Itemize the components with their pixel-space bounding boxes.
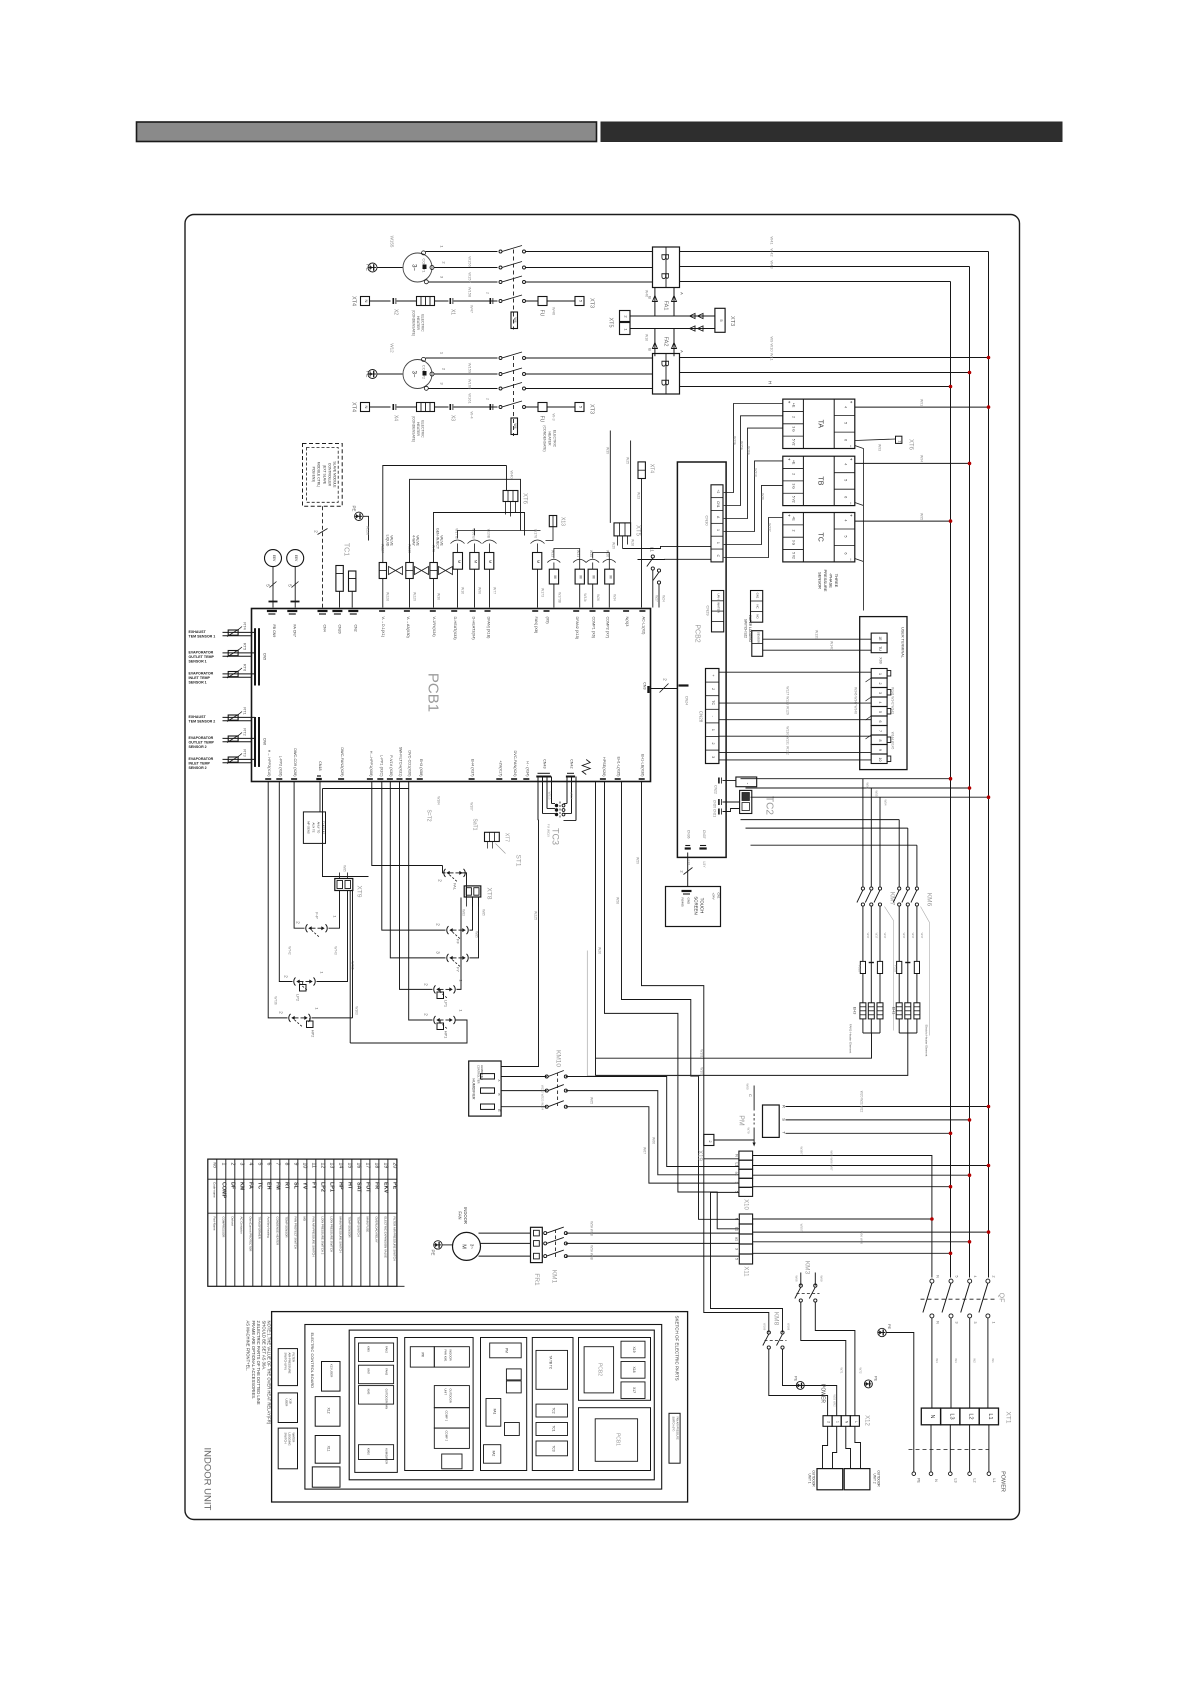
svg-text:W17: W17: [883, 933, 887, 939]
svg-text:UNIT 1: UNIT 1: [808, 1473, 812, 1483]
svg-text:5: 5: [257, 1163, 263, 1166]
svg-text:−: −: [849, 502, 854, 505]
svg-text:6: 6: [266, 1163, 272, 1166]
svg-text:W226: W226: [366, 526, 370, 535]
svg-text:COMPRESSOR: COMPRESSOR: [221, 1217, 225, 1238]
legend box water logging switch: [278, 1428, 297, 1469]
choke B2: [653, 354, 680, 395]
svg-text:Code-name: Code-name: [213, 1182, 217, 1198]
svg-text:TEMP SWITCH: TEMP SWITCH: [356, 1217, 360, 1237]
svg-text:TC: TC: [257, 1182, 263, 1189]
svg-text:6: 6: [844, 439, 848, 441]
svg-text:1: 1: [711, 729, 715, 731]
svg-text:V-→D.1(X1): V-→D.1(X1): [381, 617, 385, 638]
svg-text:3: 3: [955, 1322, 959, 1324]
svg-text:FA1: FA1: [663, 301, 669, 311]
filter switch FAL loop: [372, 782, 443, 866]
svg-text:DWC-FAN2(X29): DWC-FAN2(X29): [340, 747, 344, 777]
svg-text:Electric-Heater Element: Electric-Heater Element: [925, 1025, 929, 1057]
svg-text:XT3: XT3: [589, 298, 595, 308]
svg-text:GN1: GN1: [756, 593, 760, 599]
svg-text:PRESSURE: PRESSURE: [823, 569, 828, 591]
legend right small box: [669, 1413, 680, 1463]
svg-text:TU: TU: [878, 646, 882, 651]
svg-text:W9 W10 W11: W9 W10 W11: [770, 336, 775, 361]
loops return rails: [457, 898, 462, 990]
svg-text:3: 3: [239, 1163, 245, 1166]
svg-text:W-4: W-4: [470, 411, 475, 419]
svg-text:LP2: LP2: [320, 1182, 326, 1192]
svg-text:H: H: [768, 381, 773, 384]
svg-text:AC-L1(X2): AC-L1(X2): [641, 617, 645, 636]
svg-text:CN42: CN42: [570, 759, 574, 768]
svg-text:B: B: [659, 360, 671, 367]
svg-text:1: 1: [878, 673, 882, 675]
svg-text:3 G: 3 G: [792, 484, 796, 490]
svg-text:EVAPORATOR: EVAPORATOR: [189, 651, 214, 655]
valve V3 injection valve: [430, 563, 437, 579]
svg-text:EXHAUST: EXHAUST: [189, 630, 207, 634]
svg-text:MODULE CTRL): MODULE CTRL): [317, 462, 321, 487]
wire valve V3 riser: [434, 513, 525, 563]
legend X12 box: [315, 1397, 340, 1427]
svg-text:CN29: CN29: [706, 605, 711, 616]
wires TA TB TC plus to buses: [855, 406, 989, 408]
svg-text:CN37: CN37: [702, 830, 706, 839]
svg-text:OverCurrent PROTECTOR: OverCurrent PROTECTOR: [248, 1217, 252, 1252]
svg-text:HEATER: HEATER: [416, 422, 420, 436]
svg-text:MAIN FUSE: MAIN FUSE: [365, 1217, 369, 1233]
svg-text:OUTLET TEMP: OUTLET TEMP: [189, 741, 215, 745]
wires X11 to KM3: [727, 1259, 801, 1286]
svg-text:X13 USER: X13 USER: [330, 1364, 334, 1378]
wire valve V1 riser: [383, 466, 507, 563]
svg-text:W160: W160: [468, 379, 473, 390]
svg-text:W28: W28: [631, 539, 635, 546]
svg-text:SaT1: SaT1: [472, 819, 478, 831]
legend X13 box: [322, 1362, 341, 1392]
svg-text:N: N: [364, 406, 369, 409]
connector X13 small: [549, 516, 556, 527]
svg-text:2: 2: [792, 530, 796, 532]
svg-text:M: M: [457, 560, 462, 563]
svg-text:KM6: KM6: [926, 893, 933, 907]
svg-text:N: N: [735, 1218, 739, 1221]
svg-text:NC: NC: [756, 604, 760, 608]
wires relay bank to CN30 left: [623, 546, 712, 548]
PCB2 connector CN24: [679, 684, 689, 686]
svg-text:CN20 CN21: CN20 CN21: [713, 800, 717, 817]
wires CN30 to sensor blocks: [724, 404, 783, 493]
svg-text:10: 10: [878, 758, 882, 762]
high pressure switch HP2 loop: [268, 782, 287, 1018]
svg-text:ELECTRIC: ELECTRIC: [421, 420, 425, 438]
svg-text:2: 2: [230, 1163, 236, 1166]
svg-text:VALVE: VALVE: [390, 535, 394, 546]
svg-text:SENSOR 1: SENSOR 1: [189, 660, 207, 664]
svg-text:UNIT 2: UNIT 2: [873, 1473, 877, 1483]
svg-text:EH: EH: [266, 1182, 272, 1190]
wires choke B1 to right buses: [680, 251, 989, 253]
svg-text:PE: PE: [392, 1182, 398, 1190]
user terminal block TB1: [860, 617, 907, 770]
feeder sources from PCB2 area: [740, 771, 742, 779]
dashed optional slave module controller box: [303, 444, 343, 507]
svg-text:N: N: [935, 1321, 939, 1324]
dashed line power: [909, 1449, 989, 1451]
svg-text:M: M: [579, 576, 583, 579]
terminal strip X12: [823, 1416, 832, 1427]
svg-text:YV: YV: [302, 1182, 308, 1190]
svg-text:Part-Name: Part-Name: [212, 1217, 216, 1231]
svg-text:RT1: RT1: [243, 707, 248, 715]
svg-text:UN-I: UN-I: [717, 593, 721, 599]
svg-text:W39: W39: [606, 447, 610, 454]
svg-text:CN20: CN20: [337, 625, 341, 634]
svg-text:-PHASE: -PHASE: [829, 573, 834, 588]
svg-text:HEATER: HEATER: [548, 432, 552, 446]
outer diagram border: [185, 215, 1020, 1520]
svg-text:X3: X3: [450, 415, 456, 421]
svg-text:W85: W85: [482, 909, 486, 916]
svg-text:HT: HT: [347, 1182, 353, 1190]
svg-text:W184: W184: [437, 796, 441, 805]
svg-text:FAN AIR-PRESSURE: FAN AIR-PRESSURE: [676, 1417, 679, 1441]
svg-text:CN5: CN5: [263, 653, 267, 660]
svg-text:8: 8: [284, 1163, 290, 1166]
svg-text:W79: W79: [747, 1127, 751, 1134]
svg-text:W71: W71: [840, 1367, 844, 1374]
pressure sensor block TC: [783, 513, 855, 562]
svg-text:W140: W140: [830, 641, 834, 650]
svg-text:+2: +2: [716, 490, 720, 494]
svg-text:EVAPORATOR: EVAPORATOR: [189, 672, 214, 676]
svg-text:THREE: THREE: [834, 574, 839, 588]
svg-text:EH1-LB(X36): EH1-LB(X36): [641, 754, 645, 777]
svg-text:−: −: [849, 445, 854, 448]
motor M2 COMP2: [403, 360, 432, 389]
svg-text:4: 4: [844, 463, 848, 465]
svg-text:W17: W17: [911, 933, 915, 939]
wires KM10 outputs: [566, 1077, 739, 1167]
svg-text:3 G: 3 G: [792, 540, 796, 546]
svg-text:3~: 3~: [470, 1244, 475, 1250]
svg-text:PE: PE: [352, 505, 357, 511]
svg-text:L1: L1: [992, 1479, 996, 1483]
svg-text:1: 1: [221, 1163, 227, 1166]
legend electric control board box: [349, 1330, 654, 1480]
svg-text:W69: W69: [820, 1275, 824, 1282]
svg-text:EKV: EKV: [383, 1182, 389, 1193]
plug X2: [392, 298, 394, 304]
svg-text:W56: W56: [866, 782, 870, 789]
relay K1 defrost heater: [453, 553, 462, 570]
svg-text:PCB1: PCB1: [425, 673, 442, 712]
svg-text:FA1: FA1: [493, 1409, 497, 1415]
wire XT5 to XT3 lower with plug arrows: [630, 328, 715, 330]
expansion valve EEV2: [287, 550, 304, 567]
thermostat connector XT7 ST1: [485, 832, 500, 841]
svg-text:B: B: [648, 348, 653, 351]
svg-text:(CONDENSATE): (CONDENSATE): [412, 416, 416, 442]
legend column E top: [579, 1338, 651, 1401]
svg-text:M: M: [608, 576, 612, 579]
ground PE indoor fan: [434, 1241, 442, 1249]
main board PCB1: [252, 609, 651, 782]
wire risers relays: [458, 531, 541, 539]
svg-text:W53 W52: W53 W52: [833, 1394, 837, 1407]
svg-text:FU3B: FU3B: [858, 965, 862, 972]
svg-text:W3Jb: W3Jb: [583, 593, 587, 601]
legend box filter switch: [278, 1349, 297, 1386]
wire riser EH1-L to X11 route: [605, 782, 740, 1229]
connector CN28: [706, 669, 719, 764]
connector XT8: [464, 886, 481, 897]
svg-text:W20 W21 W22: W20 W21 W22: [860, 1091, 864, 1113]
svg-text:FY: FY: [456, 967, 461, 972]
svg-text:USER: USER: [285, 1399, 289, 1407]
svg-text:a1: a1: [735, 1237, 739, 1241]
svg-text:W34: W34: [613, 594, 617, 601]
svg-text:W36A: W36A: [747, 446, 751, 456]
svg-text:W80: W80: [746, 1083, 750, 1090]
svg-text:5: 5: [955, 1276, 959, 1278]
svg-text:PM: PM: [738, 1115, 745, 1126]
svg-text:CN22: CN22: [714, 785, 718, 794]
svg-text:FUT: FUT: [365, 1182, 371, 1193]
wires contactor to choke B2: [526, 357, 653, 359]
valve V2 4-way valve: [406, 563, 413, 579]
svg-text:+: +: [787, 514, 792, 517]
svg-text:W17: W17: [866, 933, 870, 939]
svg-text:XT6: XT6: [522, 493, 528, 505]
svg-text:X17: X17: [632, 1387, 636, 1393]
svg-text:KM10: KM10: [367, 1448, 371, 1456]
svg-text:W65: W65: [590, 1097, 594, 1104]
terminal XT5 top: [620, 311, 631, 322]
switch contact row 2: [499, 406, 502, 409]
wires KM1 to X11: [566, 1232, 740, 1234]
svg-text:W4: W4: [513, 423, 517, 428]
wires humidifier to KM10: [501, 1076, 547, 1078]
svg-text:AC Contactor: AC Contactor: [239, 1217, 243, 1234]
svg-text:18: 18: [374, 1163, 380, 1169]
svg-text:X18: X18: [632, 1366, 636, 1372]
svg-text:AUX TE: AUX TE: [312, 822, 316, 832]
humidifier box: [469, 1061, 501, 1116]
svg-text:AS MACHINE FRONT+EL.: AS MACHINE FRONT+EL.: [246, 1321, 251, 1371]
loop XT9 to XT8 bottom: [350, 891, 483, 1044]
svg-text:MAIN PRESSURE SWITCH: MAIN PRESSURE SWITCH: [338, 1217, 342, 1253]
svg-text:SENSOR 2: SENSOR 2: [189, 745, 207, 749]
fan switch FY loop: [390, 782, 445, 958]
svg-text:3: 3: [711, 756, 715, 758]
svg-text:FF: FF: [456, 939, 461, 944]
svg-text:OUTDOOR FAN: OUTDOOR FAN: [385, 1389, 389, 1410]
svg-text:W66: W66: [652, 1137, 656, 1144]
relay K5 bank: [549, 569, 558, 584]
svg-text:12: 12: [320, 1163, 326, 1169]
svg-text:17: 17: [365, 1163, 371, 1169]
water level sensor: [752, 631, 763, 657]
svg-text:W313: W313: [548, 792, 552, 800]
overload relay FR1: [531, 1227, 543, 1262]
svg-text:16: 16: [356, 1163, 362, 1169]
svg-text:M: M: [488, 560, 493, 563]
svg-text:+: +: [849, 401, 854, 404]
svg-text:RT4: RT4: [243, 622, 248, 630]
svg-text:W4: W4: [513, 317, 517, 322]
svg-text:W59: W59: [636, 857, 640, 864]
svg-text:W163: W163: [355, 1006, 359, 1015]
svg-text:CONTROL TER: CONTROL TER: [477, 1065, 481, 1084]
wire W25 riser: [630, 441, 632, 523]
svg-text:H - (X34): H - (X34): [525, 761, 529, 777]
heater returns: [561, 1033, 872, 1058]
svg-text:GND: GND: [687, 898, 691, 906]
svg-text:DVC-FAN(X24): DVC-FAN(X24): [513, 751, 517, 778]
transformer TC2: [740, 790, 752, 813]
svg-text:NO: NO: [213, 1163, 217, 1169]
legend column E bottom: [579, 1408, 651, 1471]
humidifier terminals: [481, 1074, 495, 1079]
svg-text:V-→A3(X30): V-→A3(X30): [406, 617, 410, 639]
legend column C: [481, 1338, 527, 1471]
svg-text:L5Y: L5Y: [702, 861, 706, 868]
svg-text:L3: L3: [953, 1479, 957, 1483]
wire W39 riser: [609, 431, 611, 523]
wires KM7 KM6 to fuses: [862, 906, 864, 961]
ground PE (motor 2): [368, 370, 377, 379]
svg-text:RT6: RT6: [243, 664, 248, 672]
svg-text:RT3: RT3: [243, 749, 248, 757]
relay K3 fan: [485, 553, 494, 570]
svg-text:14: 14: [338, 1163, 344, 1169]
svg-text:XT4: XT4: [351, 296, 357, 306]
svg-text:9: 9: [293, 1163, 299, 1166]
svg-text:ELECTRIC CONTROL BOARD: ELECTRIC CONTROL BOARD: [310, 1333, 315, 1389]
svg-text:2: 2: [486, 292, 490, 294]
svg-text:KM7: KM7: [367, 1368, 371, 1374]
terminal XT3 arrester: [715, 308, 725, 332]
svg-text:PCB2: PCB2: [694, 624, 701, 642]
contactor KM5 poles: [499, 357, 502, 360]
svg-text:B: B: [497, 1093, 501, 1095]
svg-text:TC2: TC2: [552, 1407, 556, 1413]
svg-text:L3: L3: [948, 1413, 954, 1419]
svg-text:CN6: CN6: [263, 738, 267, 745]
svg-text:EH1: EH1: [892, 1007, 897, 1016]
svg-text:H→ HPP2(X10): H→ HPP2(X10): [267, 750, 271, 778]
contactor KM4 poles: [499, 250, 502, 253]
svg-text:N(X)3: N(X)3: [625, 617, 629, 627]
svg-text:X10: X10: [743, 1199, 749, 1210]
relay K4: [533, 553, 542, 570]
svg-text:N: N: [929, 1415, 935, 1419]
svg-text:3~: 3~: [411, 371, 417, 378]
svg-text:W23: W23: [637, 492, 641, 499]
svg-text:CDMP2 (X7): CDMP2 (X7): [606, 617, 610, 639]
svg-text:HP: HP: [338, 1182, 344, 1190]
electric heater condensate 1: [417, 297, 435, 306]
svg-text:19: 19: [383, 1163, 389, 1169]
svg-text:W26: W26: [596, 594, 600, 601]
svg-text:SENSOR: SENSOR: [818, 572, 823, 589]
svg-text:4: 4: [248, 1163, 254, 1166]
svg-text:L: L: [854, 1421, 858, 1423]
wire X10 N to QF: [753, 1156, 932, 1278]
svg-text:FAN2: FAN2: [385, 1346, 389, 1353]
svg-text:EEV: EEV: [272, 555, 276, 562]
wire W225 humidifier feed: [501, 820, 538, 1066]
svg-text:V-1RY(X24): V-1RY(X24): [432, 617, 436, 638]
switch contact row 1: [499, 300, 502, 303]
fuse FU row 2: [538, 403, 547, 412]
svg-text:FM: FM: [275, 1182, 281, 1190]
legend column A: [355, 1338, 398, 1473]
svg-text:POWER: POWER: [1000, 1471, 1006, 1492]
svg-text:CN1: CN1: [717, 893, 721, 899]
svg-text:+: +: [787, 458, 792, 461]
svg-text:QF: QF: [998, 1293, 1005, 1303]
wire X11 N to QF N: [753, 1218, 932, 1220]
low pressure switch LP2 loop: [279, 782, 292, 982]
svg-text:W46: W46: [645, 290, 649, 297]
transformer TC3: [537, 777, 539, 821]
contactor KM4 dashed link: [513, 250, 515, 330]
pressure sensor block TA: [783, 399, 855, 448]
pressure switch F-P loop: [294, 782, 304, 929]
svg-text:EXHAUST: EXHAUST: [189, 715, 207, 719]
svg-text:6: 6: [844, 496, 848, 498]
svg-text:W16: W16: [461, 587, 465, 594]
svg-text:PCB2: PCB2: [597, 1363, 603, 1376]
svg-text:W58: W58: [616, 897, 620, 904]
wires fuses to heaters: [862, 974, 864, 1003]
svg-text:USER TERMINAL: USER TERMINAL: [901, 627, 905, 658]
svg-text:F-P: F-P: [315, 912, 320, 919]
svg-text:TA: TA: [817, 420, 824, 429]
svg-text:PE: PE: [874, 1376, 879, 1382]
svg-text:VALVE: VALVE: [416, 535, 420, 546]
svg-text:CN28: CN28: [699, 711, 704, 723]
gray leader line: [587, 951, 700, 1076]
svg-text:W35A: W35A: [740, 441, 744, 451]
svg-text:SKETCH OF ELECTRIC PARTS: SKETCH OF ELECTRIC PARTS: [675, 1316, 680, 1381]
svg-text:TEM SENSOR 1: TEM SENSOR 1: [189, 635, 216, 639]
svg-text:FB CN9: FB CN9: [272, 625, 276, 638]
svg-text:X11: X11: [743, 1266, 749, 1277]
fuse links FU: [860, 961, 865, 973]
PCB1 bottom edge pin labels: [265, 778, 271, 780]
svg-text:XT5: XT5: [608, 317, 614, 327]
svg-text:H→HPP1(X08): H→HPP1(X08): [369, 751, 373, 777]
svg-text:L1: L1: [735, 1227, 739, 1231]
svg-text:KM10: KM10: [555, 1050, 562, 1067]
svg-text:FAN1-Heater Element: FAN1-Heater Element: [849, 1024, 853, 1054]
wires KM3 outputs to X12: [801, 1302, 846, 1416]
svg-text:LOW PRESSURE SWITCH 2: LOW PRESSURE SWITCH 2: [320, 1217, 324, 1255]
svg-text:DVC-CD1(X20): DVC-CD1(X20): [408, 750, 412, 777]
svg-text:+: +: [711, 674, 715, 676]
svg-text:W18: W18: [645, 334, 649, 341]
wire valve V2 riser: [410, 479, 521, 562]
heater elements EH1 CH1: [860, 1003, 866, 1019]
svg-text:W139: W139: [815, 630, 819, 639]
svg-text:TC1: TC1: [552, 1425, 556, 1431]
header black bar: [601, 122, 1062, 142]
svg-text:EEV: EEV: [294, 555, 298, 562]
